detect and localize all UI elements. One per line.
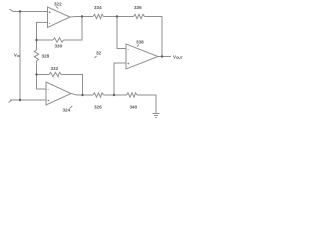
junction node Vin top [19, 10, 21, 12]
wire A2 output row [71, 94, 93, 96]
op-amp A3 triangle [126, 44, 158, 69]
wire Vin vertical bus [19, 12, 21, 101]
wire R328 to node B [36, 61, 38, 75]
svg-text:32: 32 [96, 50, 102, 55]
svg-text:334: 334 [94, 5, 102, 10]
wire node B to R332 [37, 74, 50, 76]
leader tick label 32 [95, 56, 97, 58]
wire top input rail [13, 11, 48, 13]
svg-text:336: 336 [134, 5, 142, 10]
wire A1 inverting input to node [37, 22, 48, 40]
resistor R326 [93, 93, 104, 97]
input tick bottom-left [9, 100, 13, 103]
svg-text:328: 328 [42, 54, 50, 59]
input tick top-left [10, 9, 14, 12]
junction A2 output [81, 94, 83, 96]
svg-text:VIN: VIN [14, 53, 20, 59]
leader tick label 338 [137, 45, 139, 47]
svg-text:338: 338 [136, 40, 144, 45]
svg-text:322: 322 [54, 2, 62, 7]
wire A3 output [158, 56, 171, 58]
svg-text:324: 324 [63, 108, 71, 113]
resistor R340 [127, 93, 138, 97]
wire R332 to A2 output [61, 75, 83, 96]
resistor R336 [134, 14, 145, 18]
junction node D [113, 94, 115, 96]
op-amp A2 triangle [46, 82, 71, 105]
resistor R332 [49, 72, 61, 76]
wire node A to R328 [36, 40, 38, 50]
resistor R330 [53, 38, 64, 42]
svg-text:340: 340 [130, 105, 138, 110]
leader tick label 324 [70, 106, 72, 108]
wire node A to R330 [37, 39, 54, 41]
leader tick label 322 [56, 7, 58, 9]
junction A1 output [81, 15, 83, 17]
junction node B [35, 73, 37, 75]
ground symbol [153, 113, 160, 115]
wire R330 to A1 output [64, 17, 83, 41]
wire node B down to A2 inverting input [37, 75, 47, 90]
wire R340 to ground [137, 95, 156, 114]
op-amp A1 triangle [48, 7, 71, 28]
svg-text:VOUT: VOUT [173, 54, 183, 60]
svg-text:330: 330 [55, 44, 63, 49]
svg-text:326: 326 [94, 105, 102, 110]
wire R326 to R340 [104, 94, 127, 96]
wire R336 to output node [145, 17, 163, 57]
wire node C down to A3 inverting input [117, 17, 126, 49]
junction output node [161, 55, 163, 57]
wire A1 output row [70, 16, 93, 19]
wire R334 to R336 [104, 16, 134, 18]
resistor R328 vertical [34, 50, 38, 61]
junction Vin bottom [19, 99, 21, 101]
junction node C [116, 15, 118, 17]
wire bottom input rail [10, 99, 46, 101]
junction node A [35, 39, 37, 41]
svg-text:332: 332 [51, 66, 59, 71]
wire A3 noninverting input [114, 63, 126, 95]
resistor R334 [93, 14, 104, 18]
